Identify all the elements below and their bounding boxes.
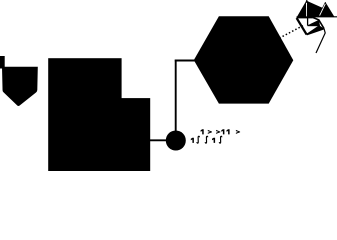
bird: body quad [307, 2, 322, 17]
bird: kite left edge [297, 18, 307, 35]
node (filled circle) [166, 131, 186, 151]
shield nub [0, 56, 5, 69]
bird: filled fold wedge [308, 20, 320, 25]
bird: right wing [318, 2, 334, 16]
glyph upper 1 [221, 129, 224, 134]
wire: vertical from node up [175, 60, 177, 131]
glyph lower int [197, 136, 199, 143]
glyph upper 1 [201, 129, 204, 134]
glyph upper gt [236, 130, 240, 134]
glyph lower 1 [191, 138, 194, 143]
glyph upper gt [208, 130, 212, 134]
bird: bottom bar under body [297, 16, 313, 18]
bird: wing left edge stroke [318, 2, 325, 16]
dotted link from hexagon to bird [273, 25, 305, 42]
bird: inner vertical line [307, 17, 309, 26]
bird: left triangle [296, 1, 306, 18]
hexagon [194, 16, 293, 103]
bird: white slash inside wing [320, 4, 326, 16]
wire: horizontal from block B to node [150, 139, 168, 141]
bird: leg line [316, 29, 325, 54]
bird: kite bottom edge [307, 29, 324, 35]
bird: kite right edge polyline [313, 17, 324, 28]
wire: horizontal to hexagon [175, 60, 195, 62]
shield [2, 67, 38, 106]
glyph lower 1 [212, 138, 215, 143]
bird: inner horizontal line [308, 25, 320, 27]
block B (lower-right extension) [121, 98, 150, 171]
bird: top guide line [306, 0, 308, 3]
bird: filled bottom sliver [307, 26, 324, 35]
block A (tall rectangle) [48, 58, 121, 171]
glyph lower int [205, 136, 207, 143]
bird: fold line [306, 1, 322, 8]
glyph upper 1 [227, 129, 230, 134]
glyph lower int [219, 136, 221, 143]
bird: thin base line to right edge [313, 16, 337, 18]
glyph upper gt [216, 130, 220, 134]
bird: inner diagonal from bottom vertex [307, 26, 320, 35]
